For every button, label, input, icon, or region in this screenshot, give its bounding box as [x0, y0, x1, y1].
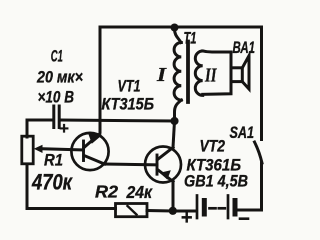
wire battery left lead — [173, 210, 195, 213]
svg-text:SА1: SА1 — [230, 123, 255, 142]
battery GB1 cell1 long plate — [196, 196, 199, 219]
node junction dot bottom — [169, 207, 177, 215]
wire VT2 emitter down to bottom node — [172, 182, 175, 212]
svg-text:20 мк×: 20 мк× — [36, 68, 83, 87]
transformer T1 primary winding I — [175, 29, 182, 43]
R1 wiper arrowhead — [34, 145, 43, 153]
svg-text:I: I — [156, 64, 168, 86]
wire R1 wiper to VT1 base — [43, 149, 84, 150]
transistor VT2 circle — [145, 147, 181, 183]
node junction dot at primary bottom — [170, 117, 178, 125]
transistor VT2 emitter (arrow toward base) — [158, 170, 174, 182]
wire VT2 collector up to node — [173, 121, 175, 148]
transformer T1 secondary winding II — [195, 51, 202, 95]
svg-text:II: II — [204, 65, 217, 87]
svg-text:+: + — [181, 207, 193, 229]
transistor VT1 collector — [84, 156, 105, 165]
R2 power-rating mark — [128, 206, 137, 215]
wire R2 right lead — [147, 209, 172, 213]
svg-text:КТ315Б: КТ315Б — [102, 95, 155, 114]
wire top rail / left vertical to VT1 emitter / right rail upper — [100, 27, 262, 140]
resistor R1 (potentiometer body) — [22, 136, 33, 164]
switch SA1 blade — [255, 142, 263, 163]
wire C1 left lead and R1 top lead — [27, 120, 53, 137]
node junction dot top rail — [171, 24, 179, 32]
wire R1 bottom lead and bottom rail to R2 — [27, 164, 116, 209]
svg-text:470к: 470к — [31, 170, 73, 195]
svg-text:R1: R1 — [44, 151, 63, 170]
svg-text:VT2: VT2 — [200, 137, 226, 156]
svg-text:С1: С1 — [51, 47, 63, 66]
transistor VT2 base bar — [156, 155, 159, 174]
wire right rail lower / bottom corner to battery — [237, 163, 262, 210]
transistor VT2 collector — [158, 148, 174, 160]
battery GB1 cell2 short plate — [233, 201, 238, 215]
transformer T1 core — [186, 42, 190, 103]
transistor VT1 circle — [71, 133, 108, 170]
speaker BA1 box — [231, 68, 242, 82]
battery dashes — [210, 207, 216, 210]
speaker BA1 horn — [242, 56, 249, 89]
battery GB1 cell2 long plate — [227, 196, 230, 219]
svg-text:GВ1 4,5В: GВ1 4,5В — [184, 172, 248, 191]
transistor VT1 emitter (arrow up-right) — [84, 134, 100, 148]
battery minus mark — [240, 217, 248, 220]
battery GB1 cell1 short plate — [202, 201, 207, 215]
svg-text:+: + — [59, 119, 69, 138]
wire VT1 collector to VT2 base — [105, 163, 158, 167]
capacitor C1 — [52, 106, 55, 128]
svg-text:R2: R2 — [95, 182, 118, 202]
wire battery right lead — [238, 209, 262, 212]
wire C1 right plate to node at transformer bottom — [61, 120, 176, 121]
wire secondary top lead to speaker — [203, 51, 231, 94]
svg-text:Т1: Т1 — [184, 30, 197, 48]
svg-text:ВА1: ВА1 — [233, 38, 256, 57]
transistor VT1 base bar — [82, 141, 85, 161]
resistor R2 — [116, 204, 148, 217]
svg-text:×10 В: ×10 В — [38, 88, 75, 107]
svg-text:VT1: VT1 — [118, 77, 141, 96]
svg-text:24к: 24к — [126, 182, 153, 202]
